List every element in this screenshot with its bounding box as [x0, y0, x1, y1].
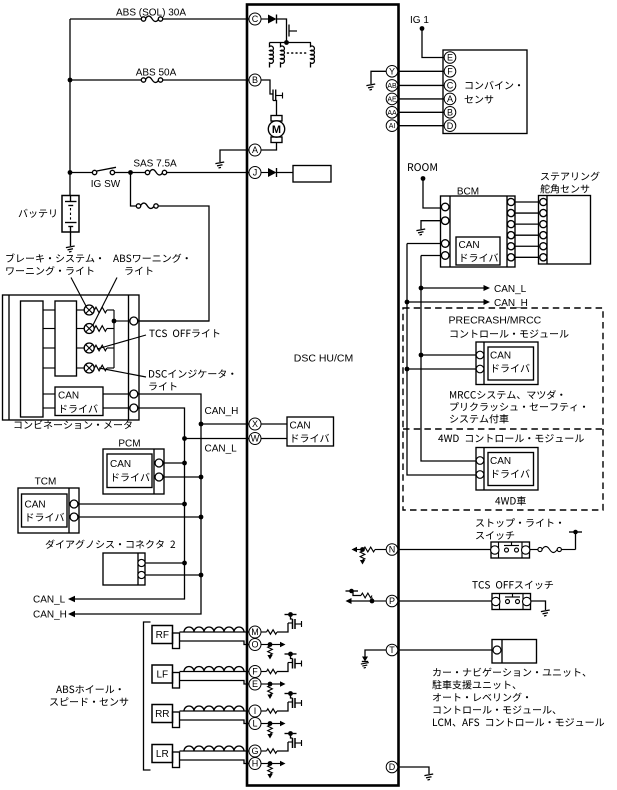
svg-text:SAS 7.5A: SAS 7.5A: [133, 159, 177, 170]
svg-text:C: C: [252, 14, 259, 24]
svg-text:RR: RR: [155, 709, 169, 720]
svg-text:LR: LR: [156, 749, 169, 760]
svg-text:ABS (SOL) 30A: ABS (SOL) 30A: [116, 8, 186, 19]
svg-text:PCM: PCM: [118, 439, 140, 450]
svg-text:ABS 50A: ABS 50A: [136, 68, 177, 79]
svg-text:IG SW: IG SW: [91, 179, 121, 190]
svg-text:X: X: [252, 419, 258, 429]
svg-text:AA: AA: [387, 110, 397, 117]
svg-text:W: W: [251, 434, 260, 444]
svg-text:LF: LF: [156, 670, 168, 681]
svg-text:L: L: [252, 719, 257, 729]
svg-text:IG 1: IG 1: [410, 15, 429, 26]
svg-text:E: E: [252, 679, 258, 689]
svg-text:M: M: [272, 124, 281, 136]
svg-text:I: I: [254, 706, 257, 716]
svg-text:TCM: TCM: [35, 477, 57, 488]
svg-text:N: N: [389, 545, 396, 555]
svg-text:PRECRASH/MRCC: PRECRASH/MRCC: [449, 315, 542, 327]
svg-text:D: D: [447, 121, 454, 131]
svg-text:P: P: [389, 596, 395, 606]
svg-text:T: T: [389, 645, 395, 655]
svg-text:DSC HU/CM: DSC HU/CM: [294, 353, 354, 365]
svg-text:CAN_L: CAN_L: [33, 595, 66, 606]
svg-text:AE: AE: [387, 96, 397, 103]
svg-text:CAN_L: CAN_L: [205, 444, 238, 455]
svg-text:CAN: CAN: [25, 500, 46, 511]
svg-text:A: A: [252, 145, 258, 155]
svg-text:O: O: [251, 640, 258, 650]
svg-text:AB: AB: [387, 83, 397, 90]
svg-text:D: D: [389, 762, 396, 772]
svg-text:A: A: [447, 94, 453, 104]
svg-text:AI: AI: [389, 123, 396, 130]
svg-text:CAN: CAN: [110, 459, 131, 470]
svg-text:E: E: [447, 53, 453, 63]
svg-text:CAN: CAN: [58, 391, 79, 402]
svg-text:J: J: [253, 168, 258, 178]
svg-text:CAN: CAN: [490, 456, 511, 467]
svg-text:RF: RF: [156, 630, 169, 641]
svg-text:G: G: [251, 746, 258, 756]
svg-text:CAN_L: CAN_L: [494, 284, 527, 295]
svg-text:CAN: CAN: [490, 351, 511, 362]
svg-text:B: B: [252, 75, 258, 85]
svg-text:Y: Y: [389, 67, 395, 77]
svg-text:CAN_H: CAN_H: [33, 610, 67, 621]
svg-text:CAN: CAN: [290, 421, 311, 432]
svg-text:B: B: [447, 108, 453, 118]
svg-text:C: C: [447, 81, 454, 91]
svg-text:CAN_H: CAN_H: [205, 406, 239, 417]
svg-text:M: M: [251, 627, 259, 637]
svg-text:CAN: CAN: [459, 240, 480, 251]
svg-text:H: H: [252, 759, 259, 769]
svg-text:F: F: [252, 667, 258, 677]
svg-text:F: F: [447, 67, 453, 77]
